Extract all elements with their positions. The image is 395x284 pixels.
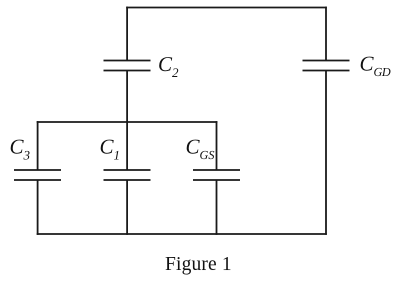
wire right vertical lower (CGD to bottom rail) [325,71,327,235]
wire C3 branch lower [37,180,39,235]
wire C1 branch upper [126,122,128,170]
wire right vertical upper (to CGD top plate) [325,7,327,61]
capacitor C2 [104,61,151,71]
svg-text:Figure 1: Figure 1 [165,254,232,275]
wire CGS branch upper [216,121,218,170]
wire middle horizontal rail [37,121,218,123]
wire C3 branch upper [37,121,39,170]
capacitor C3 [14,170,61,180]
wire bottom horizontal rail [37,233,327,235]
capacitor C1 [104,170,151,180]
wire C2 bottom to middle node [126,71,128,123]
wire C1 branch lower [126,180,128,235]
capacitor CGS [193,170,240,180]
wire top horizontal [126,7,327,9]
capacitor CGD [303,61,350,71]
wire left vertical upper (to C2 top plate) [126,7,128,61]
wire CGS branch lower [216,180,218,235]
